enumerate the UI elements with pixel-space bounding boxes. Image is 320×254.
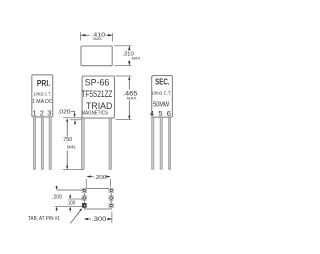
pin 5: [160, 117, 162, 169]
dimension .750 MIN.: [62, 118, 83, 169]
svg-text:.100: .100: [67, 201, 76, 207]
svg-text:4: 4: [150, 109, 154, 118]
svg-text:PRI.: PRI.: [37, 78, 50, 88]
svg-text:.300: .300: [92, 217, 108, 223]
svg-text:MIN.: MIN.: [67, 145, 76, 150]
svg-text:.200: .200: [94, 175, 106, 181]
svg-text:MAX.: MAX.: [93, 36, 103, 41]
svg-text:6: 6: [167, 109, 171, 118]
center body SP-66: [82, 76, 114, 118]
right body SEC.: [152, 76, 173, 118]
left dimensions .200 and .100: [52, 186, 83, 212]
svg-text:SEC.: SEC.: [155, 77, 169, 87]
svg-text:5: 5: [158, 109, 162, 118]
pads: right column (pins 4,5,6): [109, 188, 114, 208]
dimension .310 MAX.: [114, 46, 142, 66]
bottom view outline: [84, 189, 111, 209]
svg-text:.750: .750: [62, 137, 73, 143]
svg-text:.200: .200: [52, 195, 62, 201]
dimension .300 bottom: [84, 212, 112, 224]
extension lines pins to bottom view: [85, 179, 87, 189]
center pin left: [82, 118, 85, 169]
top view outline: [81, 46, 112, 66]
svg-text:MAGNETICS: MAGNETICS: [81, 110, 108, 116]
svg-text:10KΩ C.T.: 10KΩ C.T.: [152, 91, 172, 96]
pin 6: [169, 117, 171, 169]
svg-text:1 MA DC: 1 MA DC: [32, 99, 53, 105]
center pin right: [109, 118, 112, 169]
left body PRI.: [32, 75, 53, 117]
TAB AT PIN 1 label and leader: [28, 208, 82, 223]
svg-text:MAX.: MAX.: [132, 55, 142, 60]
dimension .465 MAX.: [116, 76, 139, 120]
dimension .200 top of bottom view: [86, 175, 110, 181]
pin 2: [41, 117, 43, 169]
pads: left column (pins 1,2,3): [82, 188, 87, 207]
svg-text:SP-66: SP-66: [85, 78, 110, 89]
svg-text:50MW: 50MW: [153, 101, 170, 108]
svg-text:TF5S21ZZ: TF5S21ZZ: [81, 89, 112, 99]
svg-text:MAX.: MAX.: [127, 95, 138, 100]
dimension .410 MAX.: [81, 32, 113, 41]
pin 4: [152, 117, 154, 169]
svg-text:.020: .020: [58, 109, 71, 115]
pin 1: [33, 117, 35, 169]
svg-text:TAB, AT PIN #1: TAB, AT PIN #1: [28, 216, 60, 222]
dimension .020: [58, 109, 82, 124]
svg-text:10KΩ C.T.: 10KΩ C.T.: [33, 92, 51, 97]
svg-text:3: 3: [47, 109, 51, 118]
svg-text:1: 1: [33, 109, 37, 118]
svg-text:2: 2: [40, 109, 44, 118]
tab pad at pin 1: [82, 203, 86, 207]
pin 3: [49, 117, 51, 169]
